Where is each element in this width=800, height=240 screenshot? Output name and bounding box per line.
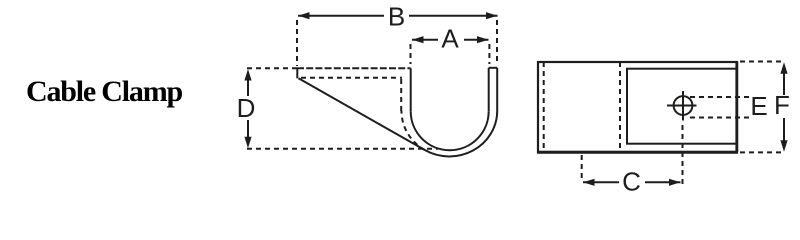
top view inner rectangle <box>627 69 737 144</box>
hook outer right wall <box>496 68 498 111</box>
svg-text:Cable Clamp: Cable Clamp <box>26 75 182 108</box>
hook inner left wall <box>410 68 412 111</box>
clamp plate top edge <box>297 67 411 69</box>
hook inner arc <box>411 111 489 150</box>
top view outer rectangle <box>538 62 737 152</box>
hidden fold line left (dashed) <box>543 62 545 152</box>
hook inner right wall <box>488 68 490 111</box>
svg-text:F: F <box>774 90 790 120</box>
F extension bottom (dashed) <box>740 151 781 153</box>
diagonal taper edge <box>299 78 425 150</box>
dimension A arrow line <box>412 36 489 43</box>
E tangent line bottom (dashed) <box>690 117 753 119</box>
dimension D arrow line <box>244 69 251 148</box>
B extension line left (dashed) <box>296 20 298 66</box>
dimension F arrow line <box>780 62 787 151</box>
hook outer arc (visible) <box>425 111 497 156</box>
bounding box bottom dashed line <box>247 148 438 150</box>
hidden fold line middle (dashed) <box>619 62 621 152</box>
hole crosshair vertical <box>682 91 684 121</box>
top view right edge (thick) <box>735 62 738 152</box>
svg-text:E: E <box>750 91 767 121</box>
hole center line down (dashed) <box>682 125 684 186</box>
dimension C arrow line <box>583 179 681 186</box>
top view bottom edge (thick) <box>537 151 738 154</box>
E tangent line top (dashed) <box>690 96 753 98</box>
hook hidden outer left wall (dashed) <box>400 78 402 111</box>
F extension top (dashed) <box>740 61 781 63</box>
svg-text:B: B <box>388 1 405 31</box>
svg-text:A: A <box>441 24 459 54</box>
mounting hole circle <box>674 96 693 115</box>
hook tip cap <box>489 67 498 69</box>
clamp plate left edge <box>296 68 298 78</box>
C extension line left (dashed) <box>581 155 583 182</box>
hook outer arc hidden (dashed) <box>402 111 425 150</box>
dimension B arrow line <box>298 12 498 19</box>
clamp plate hidden bottom edge (dashed) <box>301 77 402 79</box>
hole crosshair horizontal <box>667 105 697 107</box>
B extension line right (dashed) <box>496 20 498 64</box>
A extension line right (dashed) <box>488 44 490 64</box>
svg-text:D: D <box>237 93 256 123</box>
bounding box top dashed line <box>247 67 297 69</box>
A extension line left (dashed) <box>410 44 412 64</box>
svg-text:C: C <box>622 167 641 197</box>
